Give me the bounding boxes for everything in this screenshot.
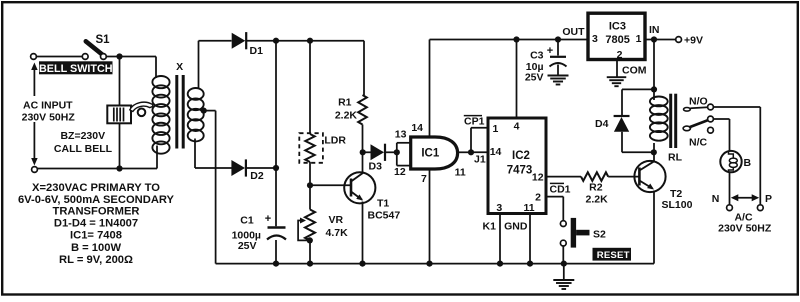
node pin11 ground	[527, 261, 533, 267]
label R1 2.2K	[335, 97, 358, 122]
transformer X core	[177, 75, 183, 149]
terminal +9V	[676, 34, 703, 46]
wire IC2 pin3 K1	[499, 214, 501, 264]
svg-text:P: P	[765, 193, 772, 205]
svg-text:RL: RL	[668, 152, 683, 164]
svg-text:CALL BELL: CALL BELL	[54, 143, 113, 155]
label pin 7	[421, 173, 427, 185]
svg-text:230V 50HZ: 230V 50HZ	[22, 111, 76, 123]
svg-text:11: 11	[455, 167, 466, 179]
transformer X secondary winding	[188, 41, 204, 168]
label D3	[369, 161, 383, 173]
node S2 ground	[561, 261, 567, 267]
svg-text:K1: K1	[483, 221, 497, 233]
wire D4 loop top	[622, 89, 654, 115]
svg-text:C3: C3	[530, 50, 544, 62]
svg-text:TRANSFORMER: TRANSFORMER	[52, 206, 139, 218]
node LDR line ground	[307, 261, 313, 267]
svg-text:IC1: IC1	[421, 148, 440, 160]
resistor R2	[581, 172, 608, 181]
label COM	[622, 65, 647, 77]
svg-text:X=230VAC PRIMARY TO: X=230VAC PRIMARY TO	[32, 182, 160, 194]
wire rail B	[430, 39, 589, 41]
label LDR	[324, 135, 346, 147]
terminal P	[757, 193, 772, 211]
svg-text:+: +	[265, 213, 271, 225]
ac input arrows	[31, 63, 38, 166]
label A/C 230V 50HZ	[718, 212, 772, 235]
svg-text:VR: VR	[329, 214, 344, 226]
label BZ=230V CALL BELL	[54, 130, 113, 155]
wire LDR to VR	[309, 162, 311, 210]
wire D2 to C1 line	[246, 167, 276, 169]
capacitor C3	[547, 40, 567, 76]
wire T2 emitter to ground	[653, 191, 655, 264]
arrow N-P	[731, 194, 759, 201]
label T2 SL100	[662, 188, 693, 211]
transistor T2	[634, 161, 665, 192]
node relay top	[651, 86, 657, 92]
wire D4 bottom	[622, 132, 654, 153]
label IN	[649, 24, 660, 36]
svg-text:+: +	[547, 45, 553, 57]
contact pole	[708, 116, 714, 122]
label pin 13	[395, 129, 407, 141]
svg-text:BC547: BC547	[368, 210, 401, 222]
svg-text:BELL SWITCH: BELL SWITCH	[39, 63, 113, 75]
svg-text:R2: R2	[589, 182, 603, 194]
svg-text:D1: D1	[250, 45, 264, 57]
label K1 GND	[483, 221, 528, 233]
relay armature lever	[683, 120, 708, 131]
wire IC1 out to J1 CP1	[471, 128, 488, 153]
svg-text:N: N	[712, 193, 720, 205]
wire bell drop	[119, 57, 121, 106]
wire AC neutral to primary	[32, 167, 157, 173]
svg-text:J1: J1	[474, 154, 486, 166]
op-amp gate IC1	[411, 137, 458, 169]
node bell tap	[116, 53, 122, 59]
wire R1 to collector node	[362, 125, 364, 153]
label CP1	[464, 116, 485, 128]
svg-text:S2: S2	[593, 229, 606, 241]
svg-text:2.2K: 2.2K	[586, 194, 609, 206]
svg-text:3: 3	[496, 202, 502, 214]
label B	[744, 157, 752, 169]
label pin 12	[394, 166, 406, 178]
relay core	[671, 94, 676, 148]
svg-text:N/O: N/O	[689, 96, 708, 108]
label BELL SWITCH	[39, 61, 113, 75]
wire pole to bulb	[713, 119, 729, 151]
svg-text:CP1: CP1	[464, 116, 485, 128]
svg-text:D1-D4 = 1N4007: D1-D4 = 1N4007	[54, 217, 138, 229]
wire bell to bottom	[119, 123, 121, 168]
legend text	[18, 182, 175, 266]
diode D1	[232, 32, 247, 49]
svg-text:230V 50HZ: 230V 50HZ	[718, 222, 772, 234]
label R2 2.2K	[586, 182, 609, 206]
node rail A C1 branch	[273, 38, 279, 44]
label CD1	[550, 183, 571, 195]
wire S1 to transformer primary top	[106, 57, 156, 79]
label pin 14	[411, 122, 423, 134]
svg-text:14: 14	[490, 146, 502, 158]
wire IC2 pin12 to R2	[546, 176, 581, 178]
terminal N	[712, 193, 733, 211]
label X	[176, 61, 183, 73]
node D2 junction	[273, 165, 279, 171]
svg-text:7805: 7805	[605, 34, 629, 46]
wire bulb to N	[729, 172, 731, 204]
wire T1 base	[310, 184, 351, 186]
svg-text:N/C: N/C	[689, 137, 708, 149]
svg-text:IC3: IC3	[609, 21, 626, 33]
wire IC1 pin 7 to ground	[429, 169, 431, 264]
label RESET	[593, 248, 632, 261]
node +9V branch	[651, 36, 657, 42]
wire rail A	[247, 41, 365, 95]
bulb B	[720, 151, 741, 172]
svg-text:12: 12	[394, 166, 406, 178]
svg-text:13: 13	[395, 129, 407, 141]
diode D2	[231, 159, 246, 176]
node relay bottom / T2 collector	[651, 149, 657, 155]
wire N/O to P	[713, 107, 760, 205]
node C3 branch	[555, 36, 561, 42]
wire LDR line top	[309, 41, 311, 134]
svg-text:AC INPUT: AC INPUT	[23, 99, 73, 111]
svg-text:RL = 9V, 200Ω: RL = 9V, 200Ω	[59, 254, 133, 266]
node J1	[468, 149, 474, 155]
relay contact N/O terminal	[684, 107, 708, 111]
node T1 emitter ground	[359, 261, 365, 267]
diode D4	[614, 116, 630, 132]
node IC1 ground	[426, 261, 432, 267]
transistor T1	[344, 172, 375, 203]
label AC INPUT 230V 50HZ	[22, 99, 76, 123]
node pin3 ground	[497, 261, 503, 267]
svg-text:B: B	[744, 157, 752, 169]
svg-text:R1: R1	[338, 97, 352, 109]
preset VR	[298, 210, 315, 241]
svg-text:1: 1	[636, 33, 642, 45]
node IC2 pin4 branch	[513, 36, 519, 42]
svg-text:RESET: RESET	[597, 250, 630, 261]
node secondary centre tap	[201, 108, 207, 114]
svg-text:11: 11	[523, 202, 534, 214]
svg-text:C1: C1	[240, 215, 254, 227]
wire IC2 pin4 drop	[516, 40, 518, 119]
wire IC3 pin2 COM	[616, 60, 618, 78]
svg-text:7473: 7473	[507, 165, 533, 177]
svg-text:S1: S1	[96, 34, 111, 46]
svg-text:IC2: IC2	[512, 150, 530, 162]
ground C3	[548, 76, 569, 85]
capacitor C1	[265, 213, 286, 240]
switch S1	[31, 34, 111, 59]
resistor R1	[358, 95, 367, 125]
contact N/O	[689, 96, 713, 110]
label T1 BC547	[368, 198, 401, 222]
svg-text:2.2K: 2.2K	[335, 110, 358, 122]
label J1	[474, 154, 486, 166]
wire centre tap to ground rail	[204, 111, 216, 264]
svg-text:+9V: +9V	[684, 34, 703, 46]
svg-text:B = 100W: B = 100W	[71, 242, 121, 254]
wire C1 line	[275, 41, 277, 264]
wire VR to ground	[309, 240, 311, 263]
ground symbol S2	[553, 264, 574, 289]
IC3 7805	[588, 13, 645, 61]
switch S2	[560, 218, 589, 248]
label C1 1000u 25V	[232, 215, 261, 253]
svg-text:25V: 25V	[238, 240, 257, 252]
svg-text:D4: D4	[595, 118, 609, 130]
wire IC1 input bracket	[397, 143, 411, 166]
wire T1 emitter	[362, 202, 364, 264]
node C1 ground	[273, 261, 279, 267]
svg-text:12: 12	[532, 172, 544, 184]
label S2	[593, 229, 606, 241]
node T1 base junction	[307, 182, 313, 188]
wire IC1 pin 14 to rail B	[429, 40, 431, 138]
svg-text:IN: IN	[649, 24, 660, 36]
label D4	[595, 118, 609, 130]
wire AC live to switch S1	[34, 56, 86, 58]
wire IC3 out to +9V	[645, 39, 676, 41]
svg-text:2: 2	[617, 49, 623, 61]
wire to D3	[363, 151, 371, 153]
svg-text:7: 7	[421, 173, 427, 185]
wire T2 collector	[653, 152, 655, 161]
diode D3	[371, 144, 386, 161]
svg-text:14: 14	[411, 122, 423, 134]
svg-text:3: 3	[592, 33, 598, 45]
label C3 10u 25V	[525, 50, 544, 84]
wire T1 collector	[362, 152, 364, 172]
wire IC1 output	[458, 151, 471, 153]
ground IC3 COM	[607, 77, 627, 86]
wire secondary top to D1	[199, 40, 232, 42]
svg-text:4.7K: 4.7K	[326, 227, 349, 239]
svg-text:1: 1	[493, 123, 499, 135]
node VR wiper junction	[307, 237, 313, 243]
label OUT	[562, 26, 585, 38]
node T1 collector / D3 anode	[360, 149, 366, 155]
node bell bottom	[116, 165, 122, 171]
node IC1 input junction	[394, 149, 400, 155]
svg-text:25V: 25V	[525, 72, 544, 84]
label pin 11	[455, 167, 466, 179]
svg-text:2: 2	[535, 192, 541, 204]
svg-text:CD1: CD1	[550, 184, 571, 196]
bell BZ	[107, 102, 153, 123]
wire +9V drop to relay	[653, 40, 655, 101]
wire R2 to T2 base	[608, 176, 639, 178]
label VR 4.7K	[326, 214, 349, 239]
svg-text:IC1= 7408: IC1= 7408	[70, 230, 122, 242]
IC2 7473	[488, 118, 546, 214]
wire D3 to IC1 inputs	[385, 151, 397, 153]
wire IC2 pin11 GND	[529, 214, 531, 264]
svg-text:X: X	[176, 61, 183, 73]
wire ground rail	[216, 263, 654, 265]
wire IC2 pin2 to S2	[546, 197, 563, 221]
transformer X primary winding	[152, 76, 169, 169]
svg-text:T1: T1	[377, 198, 389, 210]
svg-text:LDR: LDR	[324, 135, 346, 147]
wire S2 to ground rail	[562, 246, 564, 264]
label D1	[250, 45, 264, 57]
svg-text:OUT: OUT	[562, 26, 585, 38]
contact N/C	[689, 127, 713, 148]
svg-text:SL100: SL100	[662, 199, 693, 211]
svg-text:BZ=230V: BZ=230V	[60, 130, 105, 142]
wire secondary bottom to D2	[195, 167, 232, 169]
relay RL coil	[650, 97, 668, 153]
svg-text:4: 4	[514, 121, 520, 133]
svg-text:COM: COM	[622, 65, 647, 77]
LDR	[299, 133, 323, 163]
label RL	[668, 152, 683, 164]
label D2	[250, 170, 264, 182]
svg-text:D3: D3	[369, 161, 383, 173]
svg-text:6V-0-6V, 500mA SECONDARY: 6V-0-6V, 500mA SECONDARY	[18, 194, 175, 206]
svg-text:GND: GND	[504, 221, 528, 233]
svg-text:D2: D2	[250, 170, 264, 182]
node rail A LDR branch	[307, 38, 313, 44]
